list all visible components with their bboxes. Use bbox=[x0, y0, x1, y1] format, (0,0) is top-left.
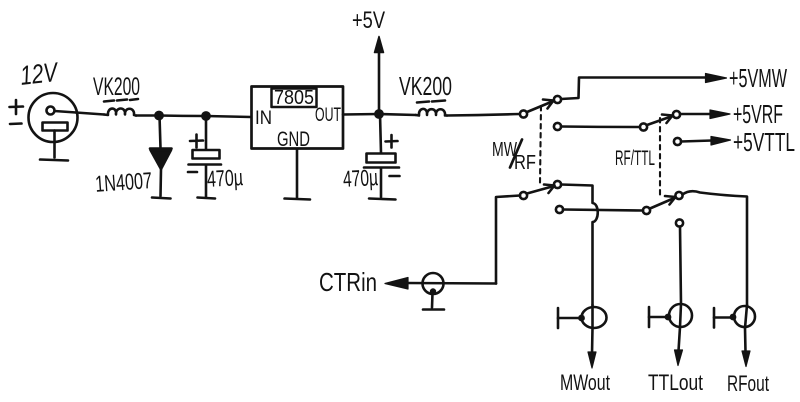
svg-text:1N4007: 1N4007 bbox=[94, 167, 153, 197]
wire 12V source to L1 bbox=[76, 113, 104, 115]
arrowhead CTRin bbox=[385, 278, 408, 290]
switch S2a throw RF contact bbox=[673, 111, 680, 118]
svg-text:TTLout: TTLout bbox=[648, 370, 703, 395]
wire CTRin riser to S1b bbox=[496, 196, 520, 284]
switch S2a arm with arrow bbox=[647, 115, 673, 126]
wire S2a RF to +5VRF arrow bbox=[680, 113, 711, 116]
svg-text:7805: 7805 bbox=[274, 87, 314, 109]
svg-text:+5VMW: +5VMW bbox=[729, 63, 787, 93]
connector MWout J3 bbox=[558, 305, 607, 354]
switch S1a MW/RF (common contact) bbox=[520, 110, 527, 117]
diode D1 1N4007 bbox=[150, 116, 172, 197]
inductor L1 VK200 (ferrite dashes) bbox=[104, 99, 138, 102]
switch S2b arm with arrow bbox=[650, 196, 676, 209]
switch S2b throw RF contact bbox=[675, 192, 682, 199]
svg-text:RF: RF bbox=[514, 152, 536, 174]
arrowhead TTLout bbox=[675, 350, 683, 366]
switch S1a throw RF contact bbox=[554, 123, 561, 130]
svg-text:RFout: RFout bbox=[727, 371, 769, 396]
arrowhead MWout bbox=[588, 352, 596, 368]
wire CTRin line bbox=[406, 282, 496, 285]
svg-text:+5VRF: +5VRF bbox=[733, 99, 783, 129]
svg-text:12V: 12V bbox=[19, 57, 61, 91]
wire S2b TTL to TTLout bbox=[680, 227, 681, 305]
wire L1 to node A bbox=[136, 114, 159, 117]
svg-text:+5V: +5V bbox=[352, 7, 385, 34]
ground (D1) bbox=[152, 198, 171, 199]
wire S2a TTL to +5VTTL arrow bbox=[681, 141, 712, 142]
switch S1b arm with arrow bbox=[527, 185, 555, 194]
svg-text:470µ: 470µ bbox=[342, 164, 378, 192]
switch S2b common contact bbox=[643, 207, 650, 214]
connector RFout J5 bbox=[714, 305, 755, 352]
capacitor C1 470µ bbox=[188, 116, 221, 197]
ground (U1) bbox=[285, 199, 311, 200]
12V source connector J1 bbox=[29, 93, 78, 158]
svg-text:IN: IN bbox=[255, 108, 272, 129]
label VK200 (L1) bbox=[93, 73, 140, 101]
+5V arrow bbox=[375, 37, 384, 115]
junction node A (diode tap) bbox=[155, 112, 162, 119]
label TTLout bbox=[648, 370, 703, 395]
label 7805 bbox=[274, 87, 314, 109]
switch S2a throw TTL contact bbox=[674, 138, 681, 145]
gang link S2 (dashed) bbox=[659, 118, 661, 198]
svg-text:VK200: VK200 bbox=[399, 71, 452, 101]
svg-text:GND: GND bbox=[277, 128, 310, 151]
label 12V bbox=[19, 57, 61, 91]
arrowhead +5VTTL bbox=[711, 137, 731, 146]
wire S2b RF to RFout bbox=[683, 191, 748, 305]
label VK200 (L2) bbox=[399, 71, 452, 101]
svg-text:RF/TTL: RF/TTL bbox=[615, 147, 655, 170]
label CTRin bbox=[319, 267, 377, 297]
switch S2b throw TTL contact bbox=[676, 219, 683, 226]
wire U1 GND pin bbox=[296, 149, 299, 198]
svg-text:470µ: 470µ bbox=[206, 164, 243, 192]
junction node B (cap tap) bbox=[202, 112, 209, 119]
wire node B to U1 IN bbox=[206, 116, 251, 117]
wire L2 to switch S1a bbox=[447, 114, 520, 116]
wire S1a MW to +5VMW arrow bbox=[561, 78, 710, 100]
label +5VMW bbox=[729, 63, 787, 93]
connector CTRin J2 bbox=[423, 273, 445, 310]
polarity - of 12V source bbox=[10, 122, 22, 125]
pin label OUT bbox=[315, 105, 341, 126]
svg-text:OUT: OUT bbox=[315, 105, 341, 126]
polarity + of 12V source bbox=[10, 100, 24, 114]
label 470µ (C2) bbox=[342, 164, 378, 192]
svg-text:CTRin: CTRin bbox=[319, 267, 377, 297]
wire U1 OUT to node +5V bbox=[343, 113, 379, 116]
switch S1a arm with arrow bbox=[527, 100, 554, 113]
wire node A to node B bbox=[159, 114, 206, 117]
wire S1b MW to MWout (with hop) bbox=[561, 185, 598, 306]
inductor L2 VK200 (ferrite dashes) bbox=[417, 101, 445, 103]
label 470µ (C1) bbox=[206, 164, 243, 192]
label +5VTTL bbox=[733, 127, 795, 157]
svg-text:MWout: MWout bbox=[560, 370, 610, 395]
switch S1b throw RF contact bbox=[556, 206, 563, 213]
gang link S1 (dashed) bbox=[540, 106, 541, 183]
pin label GND bbox=[277, 128, 310, 151]
capacitor C2 470µ bbox=[364, 114, 400, 197]
switch S2a common contact bbox=[640, 123, 647, 130]
arrowhead RFout bbox=[742, 351, 750, 367]
label +5VRF bbox=[733, 99, 783, 129]
connector TTLout J4 bbox=[649, 304, 692, 351]
switch S1b common contact bbox=[520, 192, 527, 199]
switch S1b throw MW contact bbox=[554, 181, 561, 188]
label MWout bbox=[560, 370, 610, 395]
ground (12V source) bbox=[40, 160, 68, 161]
ground (C1) bbox=[198, 198, 216, 199]
junction node +5V bbox=[375, 110, 382, 117]
pin label IN bbox=[255, 108, 272, 129]
label MW/RF bbox=[492, 139, 536, 174]
svg-text:VK200: VK200 bbox=[93, 73, 140, 101]
label 1N4007 bbox=[94, 167, 153, 197]
arrowhead +5VRF bbox=[710, 110, 730, 119]
svg-text:+5VTTL: +5VTTL bbox=[733, 127, 795, 157]
inductor L2 VK200 (coil) bbox=[416, 109, 447, 116]
ground (C2) bbox=[369, 199, 396, 200]
label RF/TTL bbox=[615, 147, 655, 170]
wire S1b RF to S2b common bbox=[563, 210, 643, 211]
switch S1a throw MW contact bbox=[554, 96, 561, 103]
wire S1a RF to S2a common bbox=[561, 125, 640, 128]
wire node +5V to L2 bbox=[379, 114, 416, 115]
label +5V bbox=[352, 7, 385, 34]
label RFout bbox=[727, 371, 769, 396]
inductor L1 VK200 (coil) bbox=[104, 108, 136, 115]
regulator U1 7805 bbox=[252, 87, 344, 149]
arrowhead +5VMW bbox=[706, 74, 727, 83]
